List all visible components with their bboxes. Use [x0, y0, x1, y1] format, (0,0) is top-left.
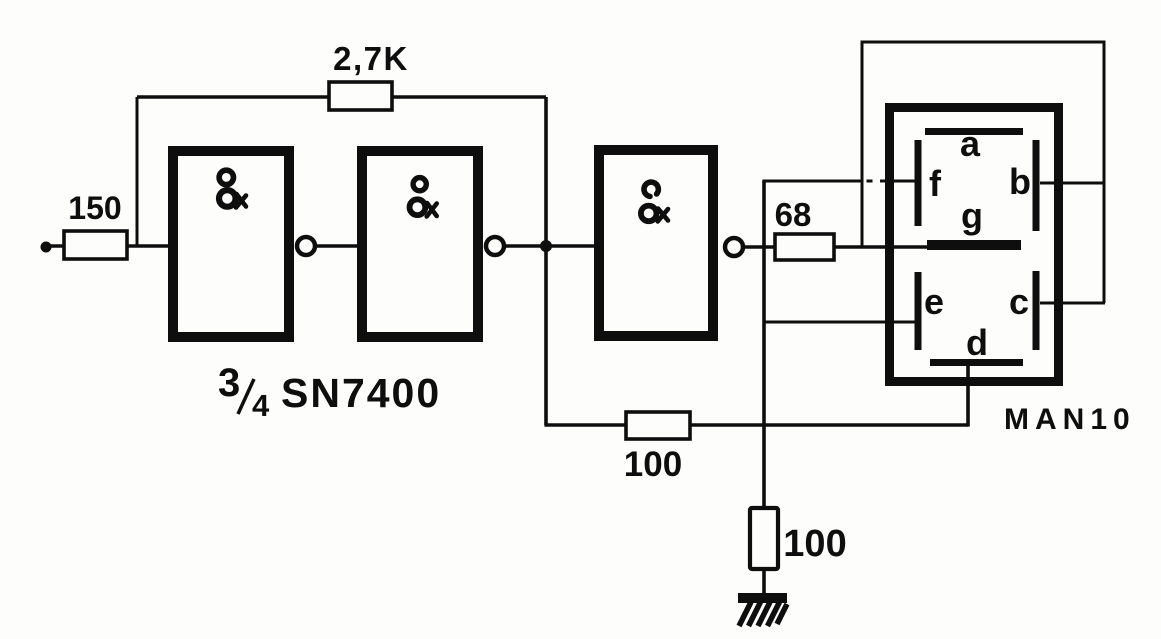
svg-text:d: d: [966, 322, 988, 363]
svg-text:f: f: [929, 163, 942, 204]
wire: input to gate U1a: [46, 244, 170, 248]
svg-text:3: 3: [218, 361, 240, 405]
wire: e segment lead: [764, 321, 918, 324]
input terminal dot: [41, 242, 52, 253]
junction dot: feedback meets signal: [540, 240, 552, 252]
NAND gate U1b: [362, 151, 478, 337]
svg-text:100: 100: [624, 445, 682, 484]
gate symbol & U1c: [641, 182, 668, 221]
resistor R5 100 (to ground): [750, 508, 778, 569]
wire: d bus horizontal: [544, 423, 968, 427]
resistor R3 100 (d bus): [626, 412, 690, 439]
wire: U1c output to R4: [728, 245, 775, 249]
resistor R2 2,7K: [329, 82, 392, 110]
svg-text:2,7K: 2,7K: [333, 40, 409, 77]
svg-text:MAN10: MAN10: [1004, 403, 1136, 436]
wire: c segment lead: [1040, 302, 1105, 305]
inverter bubble U1b output: [486, 237, 504, 255]
inverter bubble U1a output: [297, 237, 315, 255]
svg-text:e: e: [924, 281, 944, 322]
wire: branch vertical (f/e/ground bus): [762, 181, 766, 509]
gate symbol & U1b: [410, 178, 437, 217]
resistor R4 68: [775, 234, 834, 260]
inverter bubble U1c output: [725, 238, 743, 256]
wire: ground lead: [762, 568, 766, 594]
svg-text:68: 68: [775, 196, 812, 233]
svg-text:SN7400: SN7400: [281, 370, 441, 416]
wire: outer loop b/c (top box): [862, 42, 1104, 303]
wire: R4 to segment g: [832, 245, 930, 249]
svg-text:b: b: [1009, 161, 1031, 202]
wire: feedback top horizontal: [137, 95, 546, 99]
wire: feedback right vertical down to d-bus: [544, 97, 548, 425]
segment c: [1033, 271, 1040, 350]
wire: b segment lead: [1040, 182, 1105, 185]
wire: d segment lead: [966, 364, 970, 427]
NAND gate U1c: [599, 150, 713, 336]
NAND gate U1a: [173, 151, 289, 337]
svg-text:150: 150: [68, 190, 121, 226]
gate symbol & U1a: [219, 170, 246, 207]
svg-text:100: 100: [783, 523, 846, 565]
svg-text:4: 4: [252, 388, 270, 423]
segment f: [915, 140, 922, 226]
svg-text:g: g: [961, 195, 983, 236]
wire: U1b output to U1c: [489, 244, 599, 248]
resistor R1 150: [64, 231, 127, 259]
ground: [738, 593, 787, 626]
wire: f segment lead: [762, 180, 861, 183]
segment e: [915, 272, 922, 350]
wire: U1a output to U1b: [300, 244, 362, 248]
segment a: [925, 128, 1023, 135]
display MAN10 outline: [890, 108, 1059, 382]
wire: feedback left vertical: [136, 97, 139, 246]
segment g: [927, 240, 1021, 250]
segment b: [1033, 140, 1040, 231]
segment d: [930, 359, 1023, 366]
svg-text:a: a: [960, 123, 981, 164]
svg-text:c: c: [1009, 281, 1029, 322]
